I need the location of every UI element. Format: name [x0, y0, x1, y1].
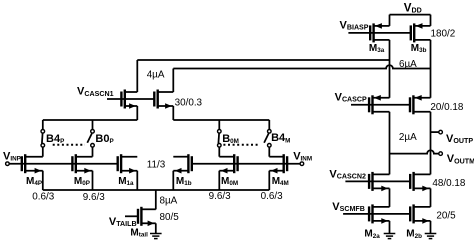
- svg-text:VOUTP: VOUTP: [446, 133, 473, 145]
- svg-text:9.6/3: 9.6/3: [83, 192, 105, 203]
- svg-text:Mtail: Mtail: [130, 227, 148, 238]
- svg-text:180/2: 180/2: [431, 29, 456, 40]
- svg-text:11/3: 11/3: [147, 160, 166, 171]
- svg-text:M4P: M4P: [26, 176, 42, 187]
- svg-text:VCASCN1: VCASCN1: [77, 86, 114, 98]
- svg-text:VCASCN2: VCASCN2: [329, 168, 366, 180]
- svg-text:M4M: M4M: [272, 176, 289, 187]
- svg-text:8µA: 8µA: [160, 195, 178, 206]
- svg-text:0.6/3: 0.6/3: [32, 191, 54, 202]
- svg-text:M3b: M3b: [411, 43, 427, 54]
- svg-text:M3a: M3a: [369, 43, 385, 54]
- svg-text:VOUTM: VOUTM: [447, 153, 474, 165]
- svg-text:VINM: VINM: [293, 150, 312, 162]
- svg-text:20/0.18: 20/0.18: [430, 102, 463, 113]
- svg-text:80/5: 80/5: [160, 212, 180, 223]
- svg-text:B0P: B0P: [95, 133, 113, 145]
- svg-text:M2a: M2a: [364, 229, 380, 240]
- svg-text:M1b: M1b: [176, 176, 192, 187]
- svg-text:6µA: 6µA: [399, 59, 417, 70]
- svg-text:M2b: M2b: [406, 229, 422, 240]
- svg-text:B4P: B4P: [46, 133, 64, 145]
- svg-text:9.6/3: 9.6/3: [209, 191, 231, 202]
- svg-text:48/0.18: 48/0.18: [432, 178, 465, 189]
- svg-text:20/5: 20/5: [436, 210, 456, 221]
- svg-text:VINP: VINP: [3, 150, 21, 162]
- svg-text:M0P: M0P: [74, 176, 90, 187]
- svg-text:M0M: M0M: [221, 176, 238, 187]
- svg-text:30/0.3: 30/0.3: [175, 98, 203, 109]
- svg-text:B4M: B4M: [271, 132, 290, 144]
- svg-text:VBIASP: VBIASP: [340, 20, 369, 32]
- svg-text:0.6/3: 0.6/3: [261, 191, 283, 202]
- svg-text:VCASCP: VCASCP: [335, 91, 367, 103]
- svg-text:4µA: 4µA: [147, 69, 165, 80]
- svg-text:2µA: 2µA: [399, 132, 417, 143]
- svg-text:M1a: M1a: [118, 176, 134, 187]
- svg-text:B0M: B0M: [222, 133, 239, 145]
- svg-text:VSCMFB: VSCMFB: [332, 201, 365, 213]
- svg-text:VDD: VDD: [404, 1, 422, 14]
